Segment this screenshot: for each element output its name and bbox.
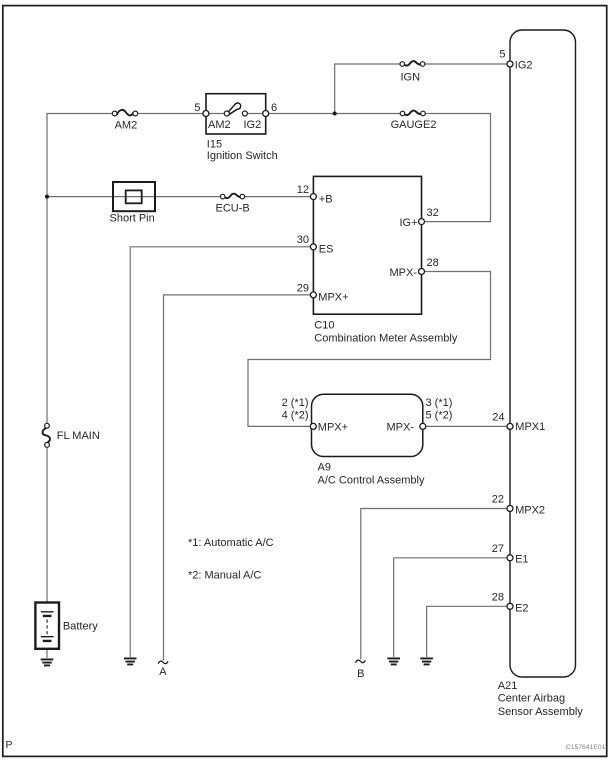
svg-text:2 (*1): 2 (*1) <box>282 397 309 409</box>
svg-text:Battery: Battery <box>63 621 98 633</box>
svg-text:MPX+: MPX+ <box>318 292 348 304</box>
svg-text:6: 6 <box>271 102 277 114</box>
svg-text:32: 32 <box>427 207 439 219</box>
svg-text:12: 12 <box>297 184 309 196</box>
svg-text:22: 22 <box>492 494 504 506</box>
svg-text:P: P <box>6 739 13 751</box>
svg-text:A/C Control Assembly: A/C Control Assembly <box>318 475 425 487</box>
svg-text:Short Pin: Short Pin <box>110 213 155 225</box>
svg-text:B: B <box>357 668 364 680</box>
svg-text:5 (*2): 5 (*2) <box>426 410 453 422</box>
svg-text:+B: +B <box>319 194 333 206</box>
svg-text:3 (*1): 3 (*1) <box>426 397 453 409</box>
svg-text:27: 27 <box>492 543 504 555</box>
svg-text:AM2: AM2 <box>208 119 231 131</box>
svg-text:24: 24 <box>492 412 504 424</box>
svg-text:4 (*2): 4 (*2) <box>282 410 309 422</box>
svg-text:28: 28 <box>427 257 439 269</box>
svg-text:Combination Meter Assembly: Combination Meter Assembly <box>314 332 458 344</box>
svg-text:A: A <box>159 666 167 678</box>
svg-text:GAUGE2: GAUGE2 <box>391 119 437 131</box>
svg-text:Ignition Switch: Ignition Switch <box>207 150 278 162</box>
svg-text:FL MAIN: FL MAIN <box>57 430 100 442</box>
svg-text:Center Airbag: Center Airbag <box>498 693 565 705</box>
svg-text:Sensor Assembly: Sensor Assembly <box>498 706 583 718</box>
svg-text:C10: C10 <box>314 320 334 332</box>
svg-text:IG2: IG2 <box>515 60 533 72</box>
svg-text:AM2: AM2 <box>115 120 138 132</box>
svg-text:E2: E2 <box>515 603 528 615</box>
svg-text:28: 28 <box>492 591 504 603</box>
svg-text:5: 5 <box>194 102 200 114</box>
svg-text:ES: ES <box>319 243 334 255</box>
svg-text:A9: A9 <box>318 462 331 474</box>
svg-text:*1: Automatic A/C: *1: Automatic A/C <box>188 537 274 549</box>
svg-text:A21: A21 <box>498 680 518 692</box>
svg-text:IG+: IG+ <box>399 217 417 229</box>
svg-text:C157641E01: C157641E01 <box>566 744 606 751</box>
svg-text:E1: E1 <box>515 554 528 566</box>
svg-text:*2: Manual A/C: *2: Manual A/C <box>188 569 261 581</box>
svg-text:MPX-: MPX- <box>390 267 418 279</box>
svg-text:MPX-: MPX- <box>387 422 415 434</box>
svg-text:30: 30 <box>297 234 309 246</box>
svg-text:I15: I15 <box>207 138 222 150</box>
svg-text:IG2: IG2 <box>244 119 262 131</box>
svg-text:IGN: IGN <box>401 72 421 84</box>
svg-text:MPX2: MPX2 <box>515 505 545 517</box>
svg-text:5: 5 <box>499 49 505 61</box>
svg-text:MPX+: MPX+ <box>318 422 348 434</box>
svg-text:ECU-B: ECU-B <box>216 203 250 215</box>
svg-text:29: 29 <box>297 282 309 294</box>
svg-text:MPX1: MPX1 <box>515 421 545 433</box>
